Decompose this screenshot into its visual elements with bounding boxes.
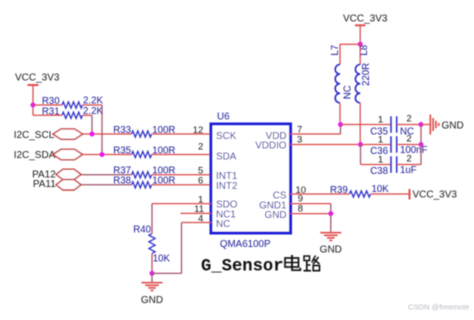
capacitor C38 — [361, 154, 422, 178]
resistor R39 — [330, 184, 409, 197]
power VCC_3V3 (R39 pull-up) — [410, 189, 458, 201]
svg-text:2: 2 — [198, 141, 203, 152]
svg-text:GND: GND — [141, 295, 163, 306]
svg-text:I2C_SCL: I2C_SCL — [14, 130, 55, 141]
svg-text:L8: L8 — [359, 45, 370, 56]
svg-text:C38: C38 — [370, 166, 388, 177]
resistor R40 — [133, 224, 170, 273]
svg-text:220R: 220R — [361, 63, 372, 86]
wire PA11 — [81, 184, 132, 186]
pin number 2 — [198, 141, 203, 152]
svg-text:8: 8 — [298, 203, 303, 214]
resistor R31 — [33, 106, 103, 118]
node C36 right junction — [419, 142, 424, 147]
svg-text:R35: R35 — [113, 145, 131, 156]
svg-text:100nF: 100nF — [400, 145, 428, 156]
power VCC_3V3 (top) — [343, 14, 388, 45]
wire SDO pin1 — [152, 204, 211, 234]
node SDA junction — [100, 152, 105, 157]
ground below chip — [320, 214, 342, 256]
wire GND1 pin9 — [291, 204, 331, 214]
node VDDIO/L8/C36 junction — [358, 142, 363, 147]
svg-text:VDDIO: VDDIO — [255, 141, 287, 152]
pin number 1 — [198, 194, 203, 205]
svg-text:1: 1 — [378, 134, 383, 145]
svg-text:R38: R38 — [113, 176, 131, 187]
node R40 bottom junction — [150, 271, 155, 276]
wire CS pin10 — [291, 193, 350, 195]
wire R31 to SCL — [91, 115, 93, 134]
svg-text:SCK: SCK — [216, 131, 237, 142]
capacitor C35 — [341, 114, 422, 138]
port I2C_SDA — [14, 149, 83, 161]
node pin8/9 junction — [328, 211, 333, 216]
svg-text:2.2K: 2.2K — [83, 96, 103, 107]
inductor L7 — [330, 44, 360, 124]
svg-text:4: 4 — [198, 213, 203, 224]
svg-text:VCC_3V3: VCC_3V3 — [343, 14, 388, 25]
node L7/L8 top junction — [358, 42, 363, 47]
pin number 6 — [198, 176, 203, 187]
resistor R35 — [113, 145, 175, 157]
svg-text:GND: GND — [442, 120, 464, 131]
svg-text:2: 2 — [406, 134, 411, 145]
svg-text:R33: R33 — [113, 125, 131, 136]
pin number 4 — [198, 213, 203, 224]
wire VDDIO pin3 — [291, 144, 361, 146]
svg-text:10K: 10K — [372, 184, 390, 195]
svg-text:VCC_3V3: VCC_3V3 — [15, 73, 60, 84]
inductor L8 — [355, 44, 371, 144]
svg-text:1: 1 — [378, 114, 383, 125]
resistor R38 — [113, 176, 175, 188]
wire — [32, 105, 34, 115]
resistor R37 — [113, 166, 175, 178]
wire R37 to pin5 — [152, 174, 211, 176]
ground (caps, rotated) — [421, 115, 464, 135]
svg-text:GND: GND — [265, 210, 287, 221]
IC U6 QMA6100P — [211, 111, 291, 250]
port I2C_SCL — [14, 129, 83, 141]
node VDD/L7/C35 junction — [338, 122, 343, 127]
wire PA12 — [81, 174, 132, 176]
svg-text:I2C_SDA: I2C_SDA — [14, 150, 56, 161]
pin number 12 — [193, 125, 204, 136]
svg-text:2: 2 — [406, 114, 411, 125]
svg-text:INT2: INT2 — [216, 181, 237, 192]
pin number 9 — [298, 194, 303, 205]
wire R35 to pin2 — [152, 154, 211, 156]
svg-text:1uF: 1uF — [400, 165, 417, 176]
power VCC_3V3 (left) — [15, 73, 60, 106]
wire SDA — [83, 154, 132, 156]
svg-text:R40: R40 — [133, 224, 151, 235]
svg-text:10K: 10K — [153, 254, 171, 265]
svg-text:VCC_3V3: VCC_3V3 — [413, 190, 458, 201]
wire R33 to pin12 — [152, 133, 211, 135]
wire VDDIO bus down to C38 — [360, 145, 362, 165]
wire R30 to SDA — [101, 105, 103, 155]
svg-text:NC: NC — [343, 85, 354, 99]
svg-text:CSDN @freemote: CSDN @freemote — [408, 302, 469, 311]
capacitor C36 — [361, 134, 428, 158]
svg-text:6: 6 — [198, 176, 203, 187]
svg-text:L7: L7 — [330, 45, 341, 56]
svg-text:12: 12 — [193, 125, 204, 136]
node junction R30 rail — [31, 103, 36, 108]
svg-text:2.2K: 2.2K — [83, 106, 103, 117]
port PA11 — [33, 179, 81, 190]
svg-text:R39: R39 — [330, 185, 348, 196]
node C35 right junction — [419, 122, 424, 127]
pin number 8 — [298, 203, 303, 214]
svg-text:2: 2 — [406, 154, 411, 165]
port PA12 — [32, 169, 81, 181]
wire GND pin8 — [291, 213, 331, 215]
wire cap ground bus — [420, 125, 422, 165]
resistor R30 — [33, 96, 103, 109]
title CJK dian (electric) — [285, 255, 300, 270]
svg-text:SDA: SDA — [216, 151, 237, 162]
pin number 7 — [297, 124, 302, 135]
pin number 5 — [198, 166, 203, 177]
svg-text:G_Sensor: G_Sensor — [201, 258, 284, 277]
wire SCL — [83, 133, 132, 135]
node SCL junction — [90, 132, 95, 137]
svg-text:PA11: PA11 — [33, 179, 56, 190]
ground below R40 — [141, 273, 163, 306]
wire R38 to pin6 — [152, 184, 211, 186]
svg-text:U6: U6 — [217, 111, 230, 122]
svg-text:NC: NC — [216, 219, 230, 230]
svg-text:1: 1 — [378, 154, 383, 165]
title G_Sensor — [201, 258, 284, 277]
pin number 11 — [194, 204, 204, 215]
pin number 10 — [296, 185, 307, 196]
svg-text:QMA6100P: QMA6100P — [220, 239, 271, 250]
title CJK lu (road) — [304, 256, 320, 271]
svg-text:GND: GND — [320, 245, 342, 256]
watermark — [408, 302, 469, 311]
wire VDD pin7 — [291, 125, 341, 135]
svg-text:3: 3 — [297, 134, 302, 145]
resistor R33 — [113, 125, 175, 137]
wire NC pin4 — [152, 223, 211, 274]
wire NC1 pin11 — [181, 212, 212, 214]
pin number 3 — [297, 134, 302, 145]
